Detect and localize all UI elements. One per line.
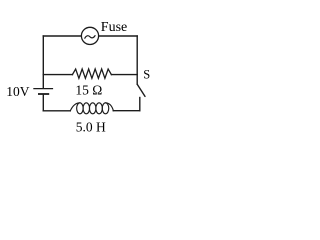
battery 10V short plate xyxy=(39,93,48,95)
battery 10V long plate xyxy=(34,88,53,90)
inductor coil loop 4 xyxy=(96,103,103,114)
AC source (fuse) circle xyxy=(81,27,98,44)
wire middle branch right lead xyxy=(111,74,137,76)
wire left vertical upper xyxy=(42,36,44,88)
svg-text:10V: 10V xyxy=(6,84,30,99)
resistor R 15 ohm zigzag xyxy=(72,69,111,78)
wire middle branch left lead xyxy=(43,74,72,76)
inductor coil entry arc xyxy=(70,103,80,111)
inductor coil loop 2 xyxy=(83,103,90,114)
svg-text:5.0 H: 5.0 H xyxy=(76,119,106,134)
wire top left segment xyxy=(43,35,81,37)
svg-text:Fuse: Fuse xyxy=(101,20,127,35)
inductor coil loop 1 xyxy=(77,103,84,114)
wire bottom left segment xyxy=(43,110,70,112)
svg-text:15 Ω: 15 Ω xyxy=(75,83,102,98)
wire bottom right segment xyxy=(113,110,140,112)
wire left vertical lower xyxy=(42,95,44,111)
svg-text:S: S xyxy=(143,68,150,82)
AC source tilde xyxy=(85,36,95,39)
switch S blade xyxy=(137,84,145,96)
inductor coil exit arc xyxy=(106,103,114,111)
inductor coil loop 3 xyxy=(89,103,96,114)
inductor coil loop 5 xyxy=(102,103,109,114)
switch lower terminal stub xyxy=(139,98,141,111)
wire top right segment xyxy=(99,35,137,37)
wire right vertical upper xyxy=(136,36,138,84)
